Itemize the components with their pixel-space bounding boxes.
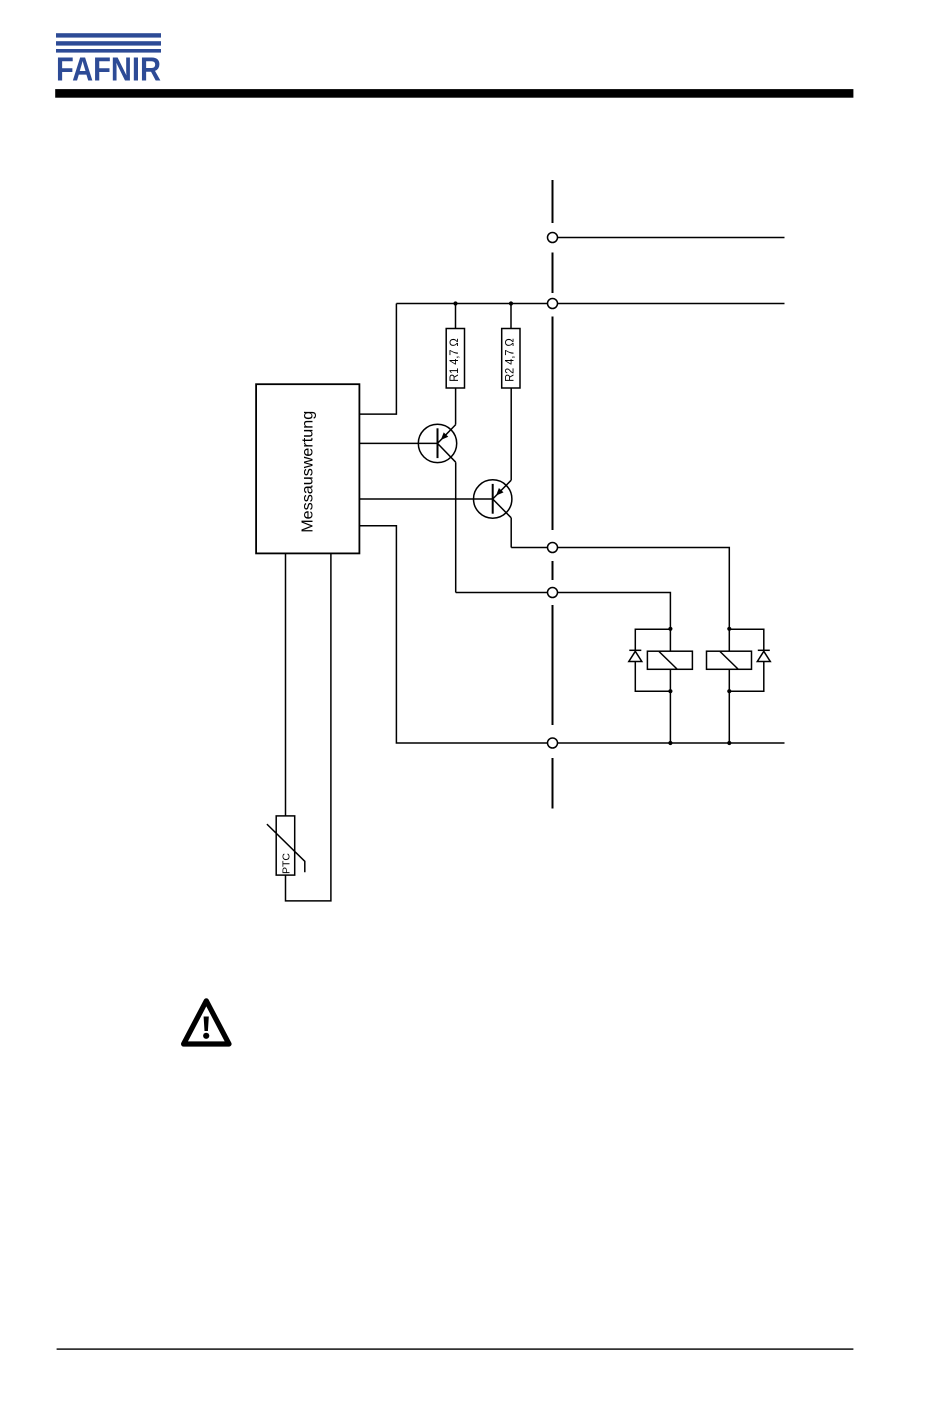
Messauswertung box — [256, 384, 359, 553]
wire PTC bottom loop to box — [286, 553, 331, 901]
terminal circle 5 — [548, 738, 558, 748]
svg-text:FAFNIR: FAFNIR — [56, 51, 161, 88]
barrier line segment 3 — [552, 317, 554, 531]
relay K1 coil — [647, 651, 692, 669]
junction dot K2 rail — [727, 741, 731, 745]
footer rule — [57, 1348, 854, 1349]
svg-text:PTC: PTC — [280, 853, 292, 874]
diode D1 cathode bar — [629, 649, 641, 651]
relay K2 coil — [707, 651, 752, 669]
terminal circle 2 — [548, 299, 558, 309]
wire terminal 2 to right edge — [558, 303, 785, 305]
junction dot rail R1 — [453, 301, 457, 305]
header black bar — [55, 89, 853, 98]
diode D2 triangle — [757, 651, 770, 661]
transistor Q1 — [418, 424, 456, 462]
terminal circle 3 — [548, 543, 558, 553]
wire Q1 emitter to terminal 4 — [456, 592, 548, 594]
wire Q1 emitter down — [455, 462, 457, 592]
barrier line segment 6 — [552, 758, 554, 809]
wire terminal 4 to relay K1 — [558, 593, 671, 652]
wire Q2 emitter to terminal 3 — [511, 547, 547, 549]
wire R1 bottom to Q1 — [455, 388, 457, 425]
wire supply rail left of terminal 2 — [396, 303, 547, 305]
wire box to supply rail — [359, 304, 396, 415]
barrier line segment 2 — [552, 253, 554, 294]
wire R2 top — [510, 304, 512, 329]
wire terminal 3 to relay K2 — [558, 548, 730, 652]
wire relay K2 bottom — [728, 669, 730, 743]
wire box to bottom rail — [359, 526, 547, 743]
warning triangle — [184, 1001, 229, 1044]
diode D2 branch wires — [729, 629, 764, 650]
wire Q2 base from box — [359, 498, 492, 500]
resistor R1 body — [446, 329, 464, 389]
barrier line segment 5 — [552, 605, 554, 725]
wire Q2 emitter down — [510, 518, 512, 548]
diode D1 branch wires — [635, 629, 670, 650]
junction dot K2 bottom — [727, 689, 731, 693]
svg-text:R1 4,7 Ω: R1 4,7 Ω — [449, 338, 461, 382]
junction dot K1 bottom — [668, 689, 672, 693]
junction dot K1 rail — [668, 741, 672, 745]
wire R2 bottom to Q2 — [510, 388, 512, 480]
svg-text:Messauswertung: Messauswertung — [300, 411, 317, 533]
junction dot K1 top — [668, 627, 672, 631]
FAFNIR logo stripes — [56, 33, 161, 52]
resistor R2 body — [502, 329, 520, 389]
terminal circle 4 — [548, 588, 558, 598]
barrier line segment 1 — [552, 180, 554, 223]
PTC element body — [276, 816, 295, 875]
wire relay K1 bottom — [669, 669, 671, 743]
wire bottom rail right — [558, 742, 785, 744]
wire Q1 base from box — [359, 442, 437, 444]
transistor Q2 — [474, 480, 512, 518]
diode D1 triangle — [629, 651, 642, 661]
junction dot rail R2 — [509, 301, 513, 305]
wire terminal 1 to right edge — [558, 237, 785, 239]
diode D2 cathode bar — [758, 649, 770, 651]
wire box to PTC top — [285, 553, 287, 816]
PTC diagonal stroke — [267, 824, 305, 872]
junction dot K2 top — [727, 627, 731, 631]
terminal circle 1 — [548, 233, 558, 243]
barrier line segment 4 — [552, 561, 554, 580]
svg-text:R2 4,7 Ω: R2 4,7 Ω — [505, 338, 517, 382]
wire R1 top — [455, 304, 457, 329]
